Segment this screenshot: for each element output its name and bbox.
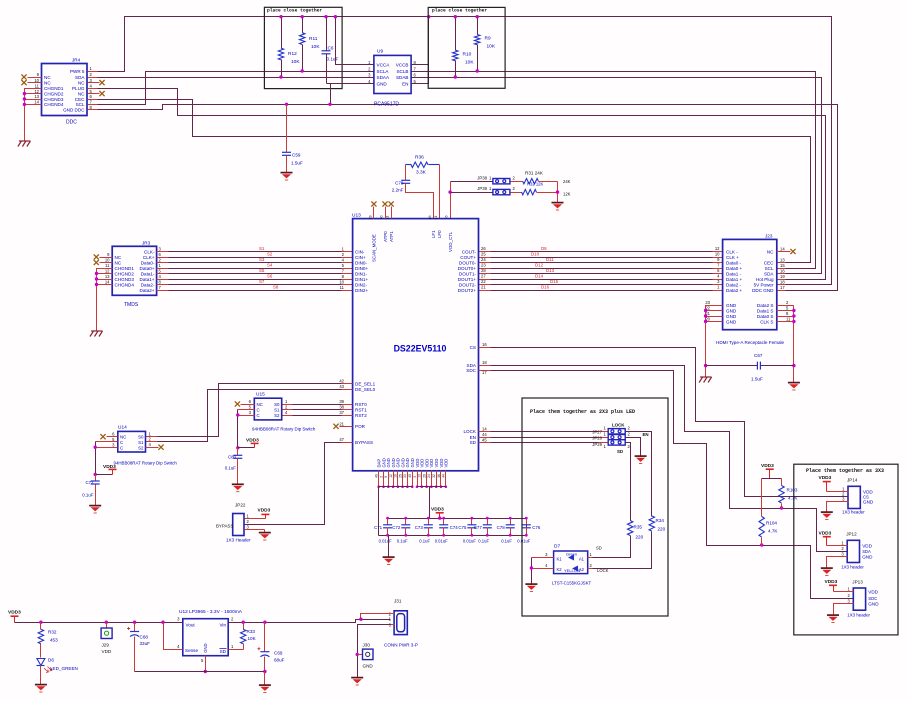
svg-text:Data0-: Data0- — [141, 260, 155, 265]
wire J31 pin2 — [359, 614, 394, 621]
svg-text:LOCK: LOCK — [597, 568, 609, 573]
svg-text:R33: R33 — [247, 629, 256, 634]
svg-text:37: 37 — [339, 410, 344, 415]
wire D7 pin1 (SD anode) — [588, 557, 593, 559]
svg-text:CONN PWR 3-P: CONN PWR 3-P — [384, 643, 418, 648]
capacitor C59 1.5uF on GND_DDC net — [282, 103, 303, 173]
IC U9 PCA9517D level shifter — [368, 49, 416, 108]
svg-text:DIN1+: DIN1+ — [355, 277, 368, 282]
power symbol VDD3 (bypass rail) — [431, 507, 444, 520]
svg-text:VDD3: VDD3 — [825, 579, 838, 585]
wire TMDS output D13: U13 to J23 — [479, 268, 723, 274]
svg-text:30: 30 — [380, 216, 384, 220]
svg-text:0.1uF: 0.1uF — [82, 493, 94, 498]
svg-text:453: 453 — [50, 638, 58, 643]
wire bypass ground rail to ground — [388, 536, 390, 557]
svg-text:Data2-: Data2- — [141, 282, 155, 287]
VDD3 rail of bypass capacitors — [379, 519, 527, 536]
svg-text:R9: R9 — [485, 36, 491, 42]
svg-text:R12: R12 — [288, 51, 297, 57]
svg-text:CHGND4: CHGND4 — [44, 102, 64, 107]
svg-text:27: 27 — [481, 274, 486, 279]
svg-text:R103: R103 — [787, 488, 798, 493]
svg-text:C80: C80 — [228, 455, 237, 460]
svg-text:S6: S6 — [267, 273, 273, 278]
svg-text:Vin: Vin — [219, 623, 226, 628]
svg-text:R31 24K: R31 24K — [525, 171, 544, 176]
wire J23 GND pins bus to chassis ground and C67 — [704, 306, 723, 378]
svg-text:GND: GND — [862, 554, 873, 559]
svg-text:6: 6 — [445, 216, 449, 218]
resistor R10 10K — [453, 15, 475, 79]
IC U13 DS22EV5110 — [339, 213, 487, 471]
connector JR4 (DDC) — [34, 58, 92, 126]
svg-text:GND: GND — [203, 643, 208, 652]
ground (EN jumper) — [635, 456, 647, 463]
svg-text:place close together: place close together — [432, 8, 487, 14]
wire JP22 pin1 to VDD3 — [245, 508, 271, 519]
JR4 left NC pins with no-connect X — [21, 74, 41, 85]
U13 POR pin no-connect — [333, 424, 352, 429]
svg-text:94HBB08RAT Rotary Dip Switch: 94HBB08RAT Rotary Dip Switch — [252, 427, 316, 432]
svg-text:JP29: JP29 — [592, 442, 602, 447]
svg-text:VDD: VDD — [444, 459, 449, 468]
wire TMDS input S8: JR3 to U13 — [157, 284, 353, 290]
resistor R34 220 — [593, 516, 666, 573]
wire JP12 pin3 to ground — [827, 557, 848, 568]
svg-text:DIN2-: DIN2- — [355, 282, 367, 287]
svg-text:10: 10 — [715, 252, 720, 257]
svg-text:DOUT1+: DOUT1+ — [458, 277, 477, 282]
svg-text:DOUT2+: DOUT2+ — [458, 288, 477, 293]
svg-text:14: 14 — [105, 280, 110, 285]
resistor R104 4.7K — [759, 479, 778, 546]
connector J29 VDD test point — [101, 623, 112, 655]
jumper JP28 (EN) — [592, 431, 630, 440]
svg-text:33uF: 33uF — [140, 641, 151, 646]
svg-text:U13: U13 — [352, 213, 361, 219]
ground (C72) — [89, 506, 101, 513]
svg-text:Data1 S: Data1 S — [757, 308, 774, 313]
ground (J30/J31) — [351, 678, 363, 685]
wire TMDS output D9: U13 to J23 — [479, 246, 723, 252]
svg-text:J23: J23 — [765, 234, 773, 239]
svg-text:42: 42 — [339, 379, 344, 384]
svg-text:28: 28 — [481, 268, 486, 273]
svg-text:S0: S0 — [138, 435, 144, 440]
svg-text:JR3: JR3 — [142, 241, 151, 246]
svg-text:D10: D10 — [531, 251, 540, 256]
svg-text:3.3K: 3.3K — [416, 170, 427, 176]
svg-text:SD: SD — [596, 546, 602, 551]
svg-text:13: 13 — [34, 94, 39, 99]
svg-text:10: 10 — [105, 258, 110, 263]
wire TMDS output D12: U13 to J23 — [479, 262, 723, 268]
svg-text:11: 11 — [105, 263, 110, 268]
svg-text:DDC: DDC — [66, 120, 77, 126]
svg-text:21: 21 — [339, 421, 344, 426]
svg-text:DOUT1-: DOUT1- — [459, 271, 477, 276]
svg-text:S8: S8 — [273, 284, 279, 289]
ground (C80) — [232, 484, 244, 491]
svg-text:COUT-: COUT- — [462, 249, 477, 254]
svg-text:VDD3: VDD3 — [246, 437, 259, 443]
svg-text:CIN-: CIN- — [355, 249, 365, 254]
svg-text:C: C — [120, 440, 123, 445]
svg-text:C69: C69 — [274, 651, 283, 656]
ground (JP14) — [821, 512, 833, 519]
svg-text:Place them together as 3X3: Place them together as 3X3 — [806, 468, 884, 474]
svg-text:GND: GND — [363, 664, 374, 669]
svg-text:43: 43 — [339, 384, 344, 389]
svg-text:220: 220 — [658, 527, 666, 532]
svg-text:17: 17 — [780, 285, 785, 290]
resistor R103 4.7K — [779, 479, 799, 509]
wire JP22 pin3 to ground — [245, 530, 265, 533]
svg-text:1X3 header: 1X3 header — [841, 565, 864, 570]
wire R36 right lead to U13 LF0 — [439, 165, 441, 219]
svg-text:K2: K2 — [557, 567, 563, 572]
svg-text:SDA: SDA — [75, 75, 85, 80]
svg-text:VDD3: VDD3 — [258, 508, 271, 514]
ground (VOD divider) — [552, 203, 564, 210]
svg-text:CLK -: CLK - — [726, 249, 738, 254]
jumper JP39 — [477, 186, 515, 195]
ground (JP22) — [259, 533, 271, 540]
svg-text:NC: NC — [257, 402, 263, 407]
svg-text:NC: NC — [78, 80, 85, 85]
svg-text:41: 41 — [434, 216, 438, 220]
capacitor C71 0.01uF — [374, 517, 392, 544]
svg-text:SDA: SDA — [862, 549, 871, 554]
svg-text:C: C — [257, 408, 260, 413]
svg-text:R32 12K: R32 12K — [527, 182, 544, 187]
svg-text:1X3 header: 1X3 header — [842, 510, 865, 515]
wire TMDS output D16: U13 to J23 — [479, 284, 723, 290]
header JP13 1X3 — [847, 580, 879, 618]
svg-text:Data2 -: Data2 - — [726, 282, 742, 287]
capacitor C72 0.1uF — [392, 517, 410, 544]
wire TMDS output D15: U13 to J23 — [479, 279, 723, 285]
svg-text:VDD3: VDD3 — [761, 463, 774, 469]
svg-text:R11: R11 — [309, 36, 318, 42]
svg-text:10K: 10K — [291, 59, 300, 65]
wire SD net: U13 pin45 to jumper JP29 — [479, 442, 609, 444]
IC U15 94HBB08RAT rotary dip switch — [249, 392, 316, 432]
svg-text:JP28: JP28 — [592, 436, 602, 441]
power symbol VDD3 (U14) — [103, 464, 117, 475]
svg-text:2: 2 — [379, 476, 383, 478]
svg-text:C68: C68 — [140, 635, 149, 640]
svg-text:CIN+: CIN+ — [355, 255, 366, 260]
svg-text:15: 15 — [780, 263, 785, 268]
wire PLUG net: JR4 pin4 to J23 Hot Plug — [88, 89, 826, 280]
jumper JP38 — [477, 175, 515, 184]
ground (bypass caps) — [383, 557, 395, 564]
wire U15 common pins to VDD3 and C80 — [236, 410, 254, 450]
svg-text:24K: 24K — [563, 179, 571, 184]
svg-text:Hot Plug: Hot Plug — [756, 277, 774, 282]
svg-text:EN: EN — [402, 81, 408, 86]
svg-text:RST1: RST1 — [355, 407, 367, 412]
wire SD jumper to R35 — [626, 443, 631, 521]
svg-text:Data2 +: Data2 + — [726, 288, 743, 293]
capacitor C74 0.01uF — [435, 517, 459, 544]
wire SDC control net: U13 pin17 to R104 pullup / JP13 — [479, 371, 854, 599]
svg-text:GND: GND — [726, 308, 737, 313]
svg-text:14: 14 — [34, 100, 39, 105]
svg-text:38: 38 — [339, 405, 344, 410]
svg-text:DOUT2-: DOUT2- — [459, 282, 477, 287]
svg-text:DIN1-: DIN1- — [355, 271, 367, 276]
svg-text:R104: R104 — [766, 521, 777, 526]
svg-text:Place them together as 2X3 plu: Place them together as 2X3 plus LED — [530, 409, 635, 415]
svg-text:U9: U9 — [377, 49, 383, 55]
svg-text:JR4: JR4 — [72, 58, 81, 63]
ground (D6) — [35, 685, 47, 692]
svg-text:Data0 +: Data0 + — [726, 266, 743, 271]
svg-text:C: C — [120, 446, 123, 451]
svg-text:1X3 Header: 1X3 Header — [226, 538, 251, 543]
resistor R36 3.3K — [406, 155, 440, 176]
svg-text:CS: CS — [470, 345, 476, 350]
svg-text:Data2+: Data2+ — [140, 288, 155, 293]
wire D7 pin2 (LOCK anode) — [588, 568, 593, 570]
svg-text:Data0 -: Data0 - — [726, 260, 742, 265]
wire U13 GND bus down to bypass-cap ground rail — [378, 487, 380, 536]
wire U9 VCCA feed from +5V rail — [334, 15, 374, 65]
svg-text:JP38: JP38 — [477, 175, 487, 180]
svg-text:47: 47 — [339, 437, 344, 442]
wire JR4 CHGND bus to chassis ground — [23, 89, 42, 142]
svg-text:BYPASS: BYPASS — [355, 440, 373, 445]
svg-text:GND DDC: GND DDC — [63, 107, 85, 112]
svg-text:Data2 S: Data2 S — [757, 303, 774, 308]
capacitor C76 0.01uF — [517, 517, 541, 544]
wire TMDS output D10: U13 to J23 — [479, 251, 723, 257]
svg-text:DIN0+: DIN0+ — [355, 266, 368, 271]
wire U12 Sense feedback — [164, 623, 183, 650]
svg-text:place close together: place close together — [267, 8, 322, 14]
chassis ground (J23 shield) — [699, 377, 712, 383]
svg-text:VDD3: VDD3 — [431, 507, 444, 513]
svg-text:C77: C77 — [474, 525, 483, 530]
ground (J23 Data S) — [788, 383, 800, 390]
svg-text:DS22EV5110: DS22EV5110 — [394, 344, 447, 354]
ground (JP12) — [821, 568, 833, 575]
resistor R35 220 — [593, 521, 644, 558]
svg-text:29: 29 — [369, 216, 373, 220]
svg-text:24: 24 — [427, 474, 431, 478]
wire BYPASS net: U13 pin47 to JP22 pin2 — [245, 443, 353, 525]
capacitor C78 0.1uF — [497, 517, 515, 544]
wire DE_SEL0 to U14 S1 — [146, 390, 353, 442]
svg-text:C79: C79 — [395, 180, 404, 185]
svg-text:S4: S4 — [267, 262, 273, 267]
wire D7 cathodes to ground — [530, 558, 554, 584]
note box: Place them together as 2X3 plus LED — [522, 398, 668, 616]
svg-text:SDAA: SDAA — [377, 75, 390, 80]
wire TMDS input S7: JR3 to U13 — [157, 279, 353, 285]
svg-text:S3: S3 — [259, 257, 265, 262]
capacitor C73 0.1uF — [415, 517, 433, 544]
voltage regulator U12 LP3965 — [177, 609, 243, 663]
wire GND_DDC net: JR4 pin8 to J23 DDC GND — [88, 105, 838, 291]
svg-text:HDMI Type-A Receptacle Female: HDMI Type-A Receptacle Female — [716, 340, 785, 345]
svg-text:Data0+: Data0+ — [140, 266, 155, 271]
svg-text:Data1 +: Data1 + — [726, 277, 743, 282]
svg-text:4.7K: 4.7K — [768, 529, 778, 534]
wire TMDS input S4: JR3 to U13 — [157, 262, 353, 268]
svg-text:4.7K: 4.7K — [788, 495, 798, 500]
svg-text:D13: D13 — [546, 268, 555, 273]
capacitor C80 0.1uF — [225, 448, 243, 484]
note box: place close together (left) — [264, 7, 342, 88]
wire TMDS output D11: U13 to J23 — [479, 257, 723, 263]
svg-text:VDD3: VDD3 — [819, 475, 832, 481]
svg-text:94HBB08RAT Rotary Dip Switch: 94HBB08RAT Rotary Dip Switch — [114, 461, 178, 466]
svg-text:VDD3: VDD3 — [819, 530, 832, 536]
wire PWR5 net: JR4 pin1 to +5V top rail to J23 5V Power — [88, 17, 832, 285]
power symbol VDD3 (3.3V rail) — [8, 610, 21, 623]
wire J23 shield Data S pins bus to ground — [777, 306, 796, 383]
svg-text:YELLOW: YELLOW — [564, 568, 581, 573]
svg-text:C75: C75 — [458, 525, 467, 530]
LED D6 LED_GREEN — [37, 658, 78, 685]
svg-text:D16: D16 — [541, 284, 550, 289]
svg-text:SDC: SDC — [466, 368, 476, 373]
svg-text:S7: S7 — [259, 279, 265, 284]
svg-text:BYPASS: BYPASS — [216, 524, 233, 529]
wire jumper resistors to ground — [556, 182, 559, 203]
svg-text:GND: GND — [726, 303, 737, 308]
svg-text:VDD: VDD — [862, 543, 872, 548]
wire SDA control net: U13 pin18 to R103 pullup / JP12 — [479, 366, 848, 552]
svg-text:SDA: SDA — [467, 363, 477, 368]
svg-text:CLK +: CLK + — [726, 255, 739, 260]
svg-text:5V Power: 5V Power — [754, 282, 774, 287]
svg-text:R35: R35 — [634, 525, 643, 530]
wire SDA-B net: U9 SDAB to J23 SDA — [412, 78, 822, 274]
wire U9 VCCB and EN tied to +5V rail — [412, 15, 431, 84]
svg-text:DOUT0-: DOUT0- — [459, 260, 477, 265]
resistor R31 24K — [511, 171, 571, 185]
svg-text:26: 26 — [481, 246, 486, 251]
svg-text:VDD3: VDD3 — [103, 464, 116, 470]
svg-text:DIN0-: DIN0- — [355, 260, 367, 265]
svg-text:D7: D7 — [554, 544, 560, 550]
wire SCL-B net: U9 SCLB to J23 SCL — [412, 72, 816, 269]
wire RST1 from U15 S1 — [282, 404, 353, 409]
svg-text:D14: D14 — [535, 273, 544, 278]
capacitor C77 0.1uF — [474, 517, 492, 544]
svg-text:S1: S1 — [138, 440, 144, 445]
svg-text:SDC: SDC — [868, 596, 877, 601]
svg-text:12K: 12K — [563, 192, 571, 197]
U13 bottom VDD pins bus — [416, 471, 447, 489]
connector J23 HDMI Type-A Receptacle Female — [705, 234, 791, 346]
svg-text:JP13: JP13 — [852, 580, 863, 585]
svg-text:NC: NC — [120, 435, 126, 440]
svg-text:J29: J29 — [102, 643, 110, 648]
IC U14 94HBB08RAT rotary dip switch — [112, 425, 177, 466]
svg-text:GND: GND — [726, 314, 737, 319]
header JP22 1X3 (BYPASS) — [216, 503, 251, 543]
capacitor C6 0.1uF — [322, 15, 374, 106]
svg-text:21: 21 — [481, 285, 486, 290]
wire DE_SEL1 to U14 S0 — [146, 384, 353, 437]
svg-text:18: 18 — [780, 279, 785, 284]
svg-text:23: 23 — [481, 263, 486, 268]
wire JR3 CHGND bus to chassis ground — [95, 269, 113, 332]
svg-text:J31: J31 — [394, 599, 402, 604]
svg-text:VDD: VDD — [102, 649, 112, 654]
svg-text:0.1uF: 0.1uF — [225, 466, 237, 471]
svg-text:0.1uF: 0.1uF — [478, 539, 489, 544]
wire TMDS output D14: U13 to J23 — [479, 273, 723, 279]
svg-text:C76: C76 — [532, 525, 541, 530]
svg-text:45: 45 — [482, 437, 487, 442]
capacitor C72 0.1uF — [82, 475, 99, 506]
svg-text:33: 33 — [403, 474, 407, 478]
wire TMDS input S6: JR3 to U13 — [157, 273, 353, 279]
ground (JP13) — [827, 615, 839, 622]
svg-text:D15: D15 — [550, 279, 559, 284]
svg-text:19: 19 — [394, 474, 398, 478]
svg-text:Data1-: Data1- — [141, 271, 155, 276]
resistor R33 10K — [241, 623, 257, 650]
chassis ground (JR4) — [18, 141, 31, 147]
svg-text:49: 49 — [375, 474, 379, 478]
wire JP14 pin1 to VDD3 — [819, 475, 849, 491]
svg-text:14: 14 — [482, 426, 487, 431]
U13 top no-connect pins SCAN_MODE ATP0 ATP1 — [369, 201, 449, 219]
svg-text:VCCA: VCCA — [377, 62, 391, 67]
svg-text:CLK S: CLK S — [760, 319, 773, 324]
resistor R9 10K — [475, 15, 496, 73]
svg-text:VDD3: VDD3 — [8, 610, 21, 616]
wire RST2 from U15 S2 — [282, 410, 353, 416]
JR4 right NC no-connect X pins 3 and 5 — [88, 80, 105, 96]
wire JP13 pin1 to VDD3 — [825, 579, 854, 592]
svg-text:19: 19 — [780, 274, 785, 279]
svg-text:10K: 10K — [248, 636, 257, 641]
svg-text:PWR 5: PWR 5 — [70, 69, 85, 74]
wire TMDS input S1: JR3 to U13 — [157, 246, 353, 252]
svg-text:ATP0: ATP0 — [383, 231, 388, 242]
svg-text:GND: GND — [868, 601, 879, 606]
svg-text:COUT+: COUT+ — [460, 255, 476, 260]
svg-text:CHGND2: CHGND2 — [44, 91, 64, 96]
ground (D7) — [525, 584, 537, 591]
wire U12 SD pin to R33 — [229, 649, 244, 651]
svg-text:CHGND3: CHGND3 — [115, 277, 135, 282]
resistor R32 12K — [511, 182, 571, 197]
svg-text:D12: D12 — [535, 262, 544, 267]
svg-text:SD: SD — [220, 649, 227, 654]
svg-text:NC: NC — [44, 80, 51, 85]
svg-text:11: 11 — [340, 285, 345, 290]
svg-text:CHGND4: CHGND4 — [115, 282, 135, 287]
svg-text:9: 9 — [384, 476, 388, 478]
wire EN net: U13 pin44 to jumper JP28 — [479, 437, 609, 439]
svg-text:0.1uF: 0.1uF — [327, 57, 339, 62]
wire JP13 pin3 to ground — [834, 604, 854, 615]
svg-text:R32: R32 — [48, 630, 57, 635]
wire EN jumper to ground — [626, 432, 649, 456]
svg-text:DE_SEL0: DE_SEL0 — [355, 387, 376, 392]
jumper JP27 (LOCK) — [592, 423, 630, 435]
